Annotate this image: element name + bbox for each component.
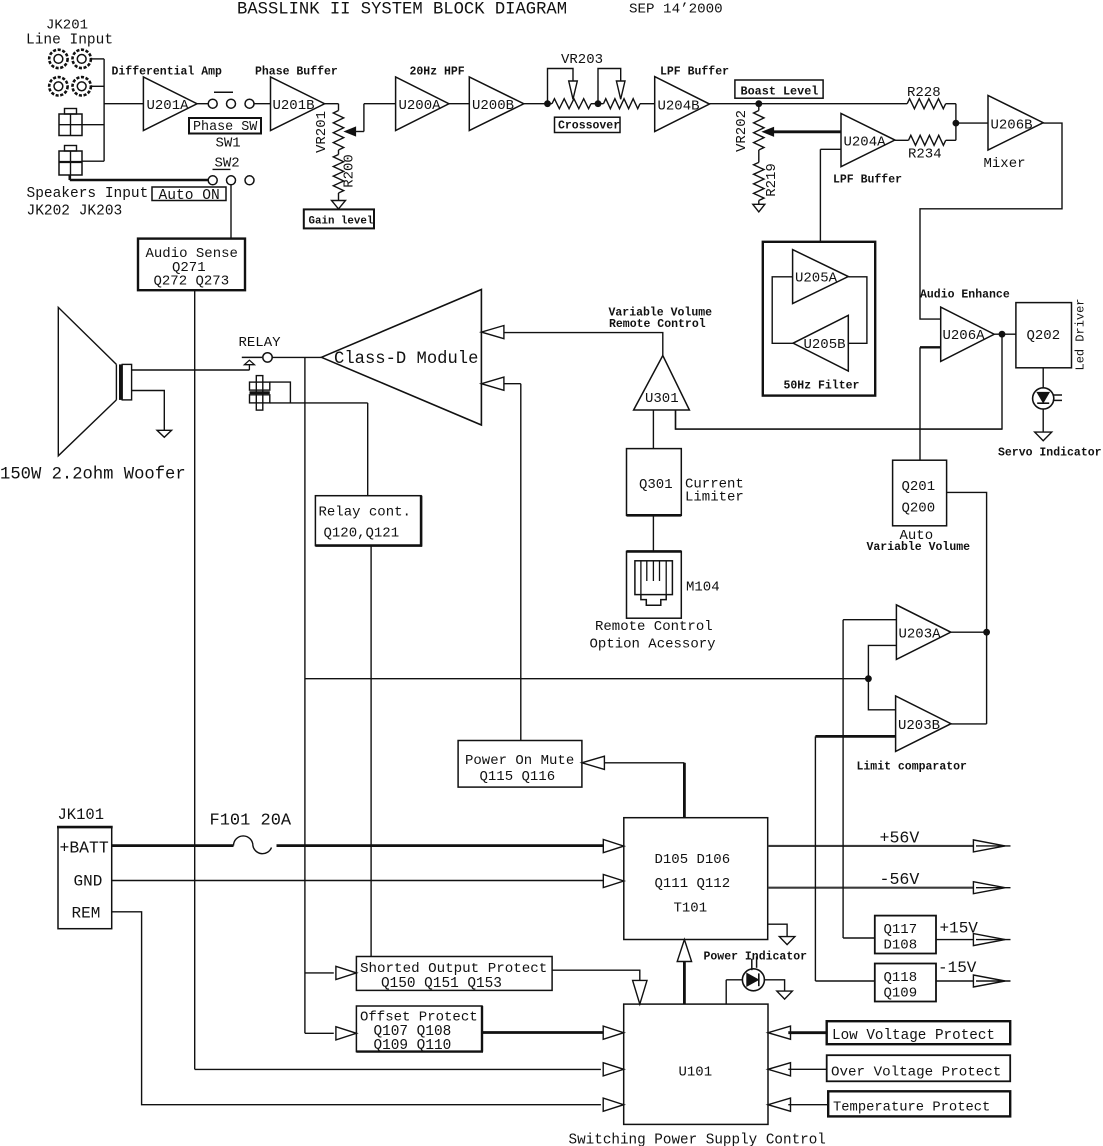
- svg-text:Shorted Output Protect: Shorted Output Protect: [360, 961, 547, 977]
- svg-text:Remote Control: Remote Control: [595, 619, 713, 635]
- svg-text:U206A: U206A: [943, 328, 986, 344]
- wire shorted output: [552, 970, 640, 980]
- VR203 bracket 1: [548, 69, 578, 104]
- wire speakers input to SW2: [70, 175, 208, 180]
- wire U206A to Q202: [994, 333, 1016, 335]
- box Over Voltage Protect: [827, 1055, 1011, 1081]
- svg-text:50Hz Filter: 50Hz Filter: [784, 380, 860, 393]
- wire U200B to VR203: [524, 103, 552, 105]
- svg-text:JK201: JK201: [46, 18, 88, 34]
- label LPF Buffer (U204A): [833, 174, 902, 187]
- wire relay to Class-D: [272, 356, 321, 358]
- wire +56V: [768, 845, 974, 847]
- wire power LED right: [764, 980, 784, 991]
- box U101: [624, 1004, 768, 1124]
- svg-text:+BATT: +BATT: [60, 839, 109, 858]
- label Auto Variable Volume: [867, 528, 971, 554]
- wire input bus vertical: [103, 59, 105, 161]
- connector JK101: [57, 806, 113, 929]
- label M104: [686, 580, 720, 596]
- Class-D input arrow 1: [481, 326, 504, 339]
- label Speakers Input: [27, 186, 149, 202]
- connector M104: [627, 551, 682, 618]
- label -56V: [880, 870, 920, 889]
- label Switching Power Supply Control: [569, 1133, 826, 1146]
- connector block 1: [59, 109, 82, 136]
- arrow shorted to U101: [633, 980, 647, 1004]
- Class-D input arrow 2: [481, 377, 504, 390]
- wire remote to Class-D: [504, 333, 663, 356]
- svg-text:U204A: U204A: [844, 135, 887, 151]
- wire R228 to node: [946, 104, 956, 123]
- svg-text:Remote Control: Remote Control: [609, 318, 706, 331]
- wire comparator junction line: [305, 678, 869, 680]
- arrow +BATT into D105: [603, 840, 624, 853]
- svg-text:U206B: U206B: [991, 118, 1033, 134]
- svg-text:U205B: U205B: [804, 337, 846, 353]
- wire U205A out to U205B: [848, 277, 867, 344]
- box Audio Sense: [138, 239, 245, 291]
- LED power indicator: [742, 956, 764, 990]
- svg-text:Auto ON: Auto ON: [159, 188, 220, 204]
- svg-text:GND: GND: [74, 873, 103, 891]
- svg-text:Boast Level: Boast Level: [741, 84, 819, 98]
- LED servo indicator: [1033, 388, 1062, 409]
- wire offset protect branch: [305, 1032, 334, 1034]
- wire Q117 feed: [843, 620, 875, 938]
- wire -56V: [768, 887, 974, 889]
- box Q202: [1016, 303, 1072, 368]
- arrow into Offset: [336, 1027, 357, 1040]
- arrow into Shorted: [336, 966, 357, 979]
- node VR202 top: [755, 100, 762, 107]
- ground VR202: [753, 201, 765, 212]
- wire U204A to R234: [895, 139, 909, 141]
- op-amp U201B: [271, 77, 325, 131]
- box Boast Level: [735, 80, 823, 98]
- resistor R228: [907, 99, 946, 109]
- wire U201A to SW1: [197, 103, 208, 105]
- label 50Hz Filter: [784, 380, 860, 393]
- switch SW2 label: [213, 156, 240, 172]
- svg-text:JK101: JK101: [58, 806, 105, 824]
- wire offset output: [482, 1031, 604, 1034]
- svg-text:Switching Power Supply Control: Switching Power Supply Control: [569, 1133, 826, 1146]
- op-amp U204A: [841, 113, 895, 166]
- label -15V: [938, 959, 977, 977]
- resistor R200: [333, 150, 357, 201]
- svg-text:Power Indicator: Power Indicator: [704, 951, 808, 964]
- box Q201 Q200: [893, 460, 947, 526]
- svg-text:JK202 JK203: JK202 JK203: [27, 204, 123, 220]
- connector block 2: [59, 146, 82, 176]
- svg-text:20Hz HPF: 20Hz HPF: [410, 66, 465, 79]
- wire U206B output: [920, 123, 1062, 319]
- svg-text:M104: M104: [686, 580, 720, 596]
- woofer speaker: [58, 307, 131, 455]
- potentiometer VR202: [734, 104, 764, 152]
- svg-text:VR203: VR203: [561, 52, 603, 68]
- node crossover 1: [544, 100, 551, 107]
- wire Class-D input 2: [504, 384, 521, 741]
- wire SW1 to U201B: [254, 103, 271, 105]
- switch SW2 contacts: [208, 176, 254, 185]
- op-amp U206B: [988, 95, 1043, 150]
- svg-text:REM: REM: [72, 905, 101, 923]
- svg-text:Option Acessory: Option Acessory: [590, 637, 716, 653]
- arrow REM into U101: [603, 1098, 624, 1111]
- wire Q202 to LED: [1042, 368, 1044, 388]
- svg-text:U203A: U203A: [899, 627, 942, 643]
- relay coil: [250, 376, 270, 411]
- arrow D105 to U101: [677, 940, 691, 1005]
- box D105 D106 Q111 Q112 T101: [624, 818, 768, 940]
- node U203A output: [983, 629, 990, 636]
- svg-text:Q150 Q151 Q153: Q150 Q151 Q153: [381, 976, 502, 992]
- svg-text:Q115 Q116: Q115 Q116: [480, 769, 556, 785]
- RCA jack 3: [49, 77, 67, 95]
- wire U204A lower input: [820, 149, 841, 242]
- svg-text:Speakers Input: Speakers Input: [27, 186, 149, 202]
- wire relay cont to shorted box: [370, 546, 372, 957]
- relay contact: [242, 353, 272, 370]
- label JK202 JK203: [27, 204, 123, 220]
- svg-text:Limiter: Limiter: [685, 490, 744, 506]
- svg-text:-56V: -56V: [880, 870, 920, 889]
- box Low Voltage Protect: [827, 1021, 1011, 1044]
- svg-text:U301: U301: [645, 391, 679, 407]
- svg-text:U205A: U205A: [795, 271, 838, 287]
- wire VR202 wiper to U204A: [773, 130, 842, 133]
- wire VR203 to U204B: [640, 103, 655, 105]
- label Remote Control Option Acessory: [590, 619, 716, 653]
- op-amp U203B: [896, 696, 951, 751]
- arrow into Gain level: [332, 201, 346, 209]
- wire U301 to Q301: [652, 410, 654, 449]
- date text: [629, 2, 723, 18]
- label LPF Buffer (U204B): [660, 66, 729, 79]
- arrow +56V: [973, 840, 1010, 852]
- arrow GND into D105: [603, 874, 624, 887]
- wire coil to relay cont box: [367, 403, 369, 496]
- label Servo Indicator: [998, 447, 1102, 460]
- box Gain level: [304, 209, 374, 228]
- wire GND to D105: [112, 880, 604, 882]
- svg-text:Q118: Q118: [884, 970, 918, 986]
- svg-text:U201B: U201B: [273, 98, 315, 114]
- wire Q118 feed: [815, 736, 874, 981]
- svg-text:Low Voltage Protect: Low Voltage Protect: [832, 1028, 995, 1044]
- arrow into Power On Mute: [582, 756, 605, 769]
- wire +BATT to fuse: [112, 844, 234, 847]
- svg-text:Differential Amp: Differential Amp: [112, 66, 223, 79]
- node crossover 2: [595, 100, 602, 107]
- svg-text:Power On Mute: Power On Mute: [465, 753, 574, 769]
- wire audio sense down: [195, 290, 601, 1069]
- svg-text:F101 20A: F101 20A: [210, 812, 292, 831]
- amplifier Class-D Module: [321, 290, 481, 426]
- wire relay coil top: [270, 382, 291, 403]
- svg-text:Q109 Q110: Q109 Q110: [374, 1038, 452, 1054]
- svg-text:Line Input: Line Input: [26, 33, 113, 49]
- svg-text:Over Voltage Protect: Over Voltage Protect: [831, 1065, 1001, 1081]
- label 150W 2.2ohm Woofer: [0, 466, 186, 485]
- svg-text:Temperature Protect: Temperature Protect: [833, 1101, 990, 1116]
- wire U203A top input: [843, 619, 896, 621]
- box Q117 D108: [875, 916, 936, 954]
- svg-text:U200B: U200B: [472, 98, 514, 114]
- wire U206A lower input: [920, 347, 941, 460]
- svg-text:U204B: U204B: [658, 99, 700, 115]
- wire Q201 to comparator: [947, 492, 987, 632]
- svg-text:Q117: Q117: [884, 922, 918, 938]
- wire Over Voltage: [788, 1068, 826, 1070]
- wire node to U206B: [956, 122, 988, 124]
- svg-text:VR202: VR202: [734, 110, 750, 152]
- arrow +15V: [973, 934, 1010, 946]
- label 20Hz HPF: [410, 66, 465, 79]
- svg-text:Q301: Q301: [639, 477, 673, 493]
- label Differential Amp: [112, 66, 223, 79]
- wire R234 to node: [946, 123, 956, 140]
- svg-text:D108: D108: [884, 938, 918, 954]
- svg-text:Q201: Q201: [902, 479, 936, 495]
- svg-text:Phase SW: Phase SW: [193, 120, 258, 135]
- label Current Limiter: [685, 477, 744, 506]
- box 50Hz Filter: [763, 242, 875, 396]
- wire U203B output: [951, 632, 987, 724]
- resistor R234: [909, 135, 946, 145]
- ground speaker: [157, 430, 172, 437]
- wire Temperature: [788, 1104, 828, 1106]
- svg-text:+15V: +15V: [940, 920, 979, 938]
- svg-text:+56V: +56V: [880, 829, 920, 848]
- RCA jack 2: [73, 50, 91, 68]
- label SW1: [216, 136, 241, 152]
- box Auto ON: [152, 187, 226, 204]
- op-amp U205A: [793, 250, 849, 304]
- wire U203B bottom input: [815, 735, 895, 738]
- label Audio Enhance: [920, 289, 1010, 302]
- box Temperature Protect: [828, 1091, 1010, 1116]
- VR202 wiper arrow: [763, 128, 774, 136]
- svg-text:Phase Buffer: Phase Buffer: [255, 66, 338, 79]
- wire bus to U201A: [104, 103, 143, 105]
- wire VR201 wiper to U200A: [364, 104, 396, 132]
- label F101 20A: [210, 812, 292, 831]
- node mixer input: [953, 120, 960, 127]
- wire speaker to ground: [132, 391, 165, 431]
- arrow offset into U101: [603, 1026, 624, 1039]
- wire relay coil bottom: [270, 402, 368, 404]
- box Q301: [627, 449, 682, 516]
- wire REM: [112, 912, 601, 1105]
- wire LED to ground: [1042, 409, 1044, 432]
- label RELAY: [239, 335, 282, 351]
- box Q118 Q109: [875, 964, 936, 1002]
- svg-text:U203B: U203B: [898, 718, 940, 734]
- svg-text:Variable Volume: Variable Volume: [867, 541, 971, 554]
- svg-text:R234: R234: [908, 147, 942, 163]
- wire crossover mid: [591, 103, 604, 105]
- svg-text:Q109: Q109: [884, 986, 918, 1002]
- arrow -56V: [973, 882, 1010, 894]
- VR201 wiper arrow: [345, 127, 364, 135]
- op-amp U301: [634, 356, 690, 411]
- svg-text:Q272 Q273: Q272 Q273: [154, 274, 230, 290]
- box Power On Mute: [458, 741, 582, 788]
- svg-text:R228: R228: [907, 85, 941, 101]
- svg-text:D105 D106: D105 D106: [655, 852, 731, 868]
- RCA jack 1: [49, 50, 67, 68]
- label +56V: [880, 829, 920, 848]
- svg-text:Q120,Q121: Q120,Q121: [324, 526, 400, 542]
- svg-text:SEP 14’2000: SEP 14’2000: [629, 2, 723, 18]
- svg-text:Q202: Q202: [1027, 328, 1061, 344]
- wire D105 ground stub: [768, 924, 787, 936]
- arrow audio sense into U101: [603, 1063, 624, 1076]
- svg-text:Mixer: Mixer: [984, 156, 1026, 172]
- wire +15V: [936, 939, 973, 941]
- RCA jack 4: [73, 77, 91, 95]
- op-amp U206A: [941, 307, 995, 361]
- arrow Over Voltage into U101: [768, 1063, 791, 1076]
- wire fuse to D105: [277, 844, 604, 847]
- label R228: [907, 85, 941, 101]
- title text: [237, 0, 567, 19]
- wire U201B to VR201: [325, 103, 339, 105]
- label VR203: [561, 52, 603, 68]
- svg-text:BASSLINK II SYSTEM BLOCK DIAGR: BASSLINK II SYSTEM BLOCK DIAGRAM: [237, 0, 567, 19]
- wire speaker to relay: [132, 369, 250, 371]
- svg-text:Servo Indicator: Servo Indicator: [998, 447, 1102, 460]
- resistor R219: [754, 150, 780, 201]
- box Offset Protect: [356, 1006, 483, 1054]
- svg-text:SW1: SW1: [216, 136, 241, 152]
- wire U204B output: [710, 103, 908, 105]
- label Led Driver: [1074, 298, 1088, 370]
- svg-text:Relay cont.: Relay cont.: [319, 505, 411, 521]
- label R234: [908, 147, 942, 163]
- label Power Indicator: [704, 951, 808, 964]
- ground servo LED: [1035, 432, 1052, 441]
- VR203 bracket 2: [598, 69, 625, 104]
- potentiometer VR201: [314, 104, 344, 153]
- ground D105: [779, 937, 795, 945]
- wire relay junction down: [304, 357, 306, 1033]
- potentiometer VR203 element 1: [552, 99, 591, 109]
- wire U203A bottom input: [868, 645, 896, 678]
- wire U203B top input: [868, 679, 895, 710]
- wire U203A output: [951, 631, 987, 633]
- op-amp U205B: [793, 315, 848, 371]
- op-amp U200A: [396, 77, 449, 131]
- wire -15V: [936, 980, 973, 982]
- arrow Temperature into U101: [768, 1098, 791, 1111]
- svg-text:RELAY: RELAY: [239, 335, 282, 351]
- svg-text:Q111 Q112: Q111 Q112: [655, 876, 731, 892]
- wire U200A to U200B: [449, 103, 469, 105]
- wire RCA top row to bus: [91, 58, 104, 60]
- connector JK201 label: [26, 18, 113, 49]
- label +15V: [940, 920, 979, 938]
- svg-text:LPF Buffer: LPF Buffer: [660, 66, 729, 79]
- svg-text:U101: U101: [679, 1065, 713, 1081]
- wire RCA bottom row to bus: [91, 85, 104, 87]
- svg-text:R200: R200: [342, 154, 358, 188]
- svg-text:U201A: U201A: [147, 98, 190, 114]
- wire block1 to bus: [82, 124, 104, 126]
- node comparator junction: [865, 675, 872, 682]
- svg-text:U200A: U200A: [399, 98, 442, 114]
- op-amp U203A: [896, 605, 950, 660]
- wire block2 to bus: [82, 160, 104, 162]
- op-amp U200B: [469, 77, 524, 131]
- svg-text:150W 2.2ohm Woofer: 150W 2.2ohm Woofer: [0, 466, 186, 485]
- arrow Low Voltage into U101: [768, 1026, 791, 1039]
- svg-text:Class-D Module: Class-D Module: [334, 350, 478, 369]
- arrow -15V: [973, 975, 1010, 987]
- wire U301 to comparator line: [676, 410, 1003, 429]
- wire shorted protect branch: [305, 972, 334, 974]
- svg-text:Gain level: Gain level: [309, 215, 374, 227]
- svg-text:Q200: Q200: [902, 501, 936, 517]
- svg-text:-15V: -15V: [938, 959, 977, 977]
- wire Low Voltage: [788, 1031, 826, 1034]
- fuse F101: [234, 836, 272, 854]
- svg-text:R219: R219: [764, 163, 780, 197]
- label Mixer: [984, 156, 1026, 172]
- box Crossover: [555, 117, 621, 133]
- wire mute line: [604, 763, 684, 818]
- svg-text:Crossover: Crossover: [558, 120, 620, 133]
- wire U206A output down: [676, 334, 1003, 429]
- op-amp U204B: [655, 77, 710, 132]
- svg-text:VR201: VR201: [314, 111, 330, 153]
- svg-text:T101: T101: [674, 901, 708, 917]
- box Relay cont.: [315, 496, 422, 547]
- ground power LED: [777, 991, 793, 999]
- wire U205A feedback: [772, 277, 793, 344]
- box Phase SW: [189, 118, 261, 135]
- wire Q301 to M104: [652, 515, 654, 551]
- op-amp U201A: [143, 77, 197, 131]
- box Shorted Output Protect: [356, 957, 552, 993]
- label Variable Volume Remote Control: [609, 307, 713, 332]
- switch SW1 contacts: [208, 92, 254, 108]
- potentiometer VR203 element 2: [604, 99, 641, 109]
- svg-text:Audio Enhance: Audio Enhance: [920, 289, 1010, 302]
- label Limit comparator: [857, 761, 968, 774]
- svg-text:Led Driver: Led Driver: [1074, 298, 1088, 370]
- wire power LED left: [726, 980, 742, 1004]
- svg-text:LPF Buffer: LPF Buffer: [833, 174, 902, 187]
- node U206A output: [999, 331, 1006, 338]
- label Phase Buffer: [255, 66, 338, 79]
- wire SW2 to audio sense: [230, 185, 232, 239]
- svg-text:Limit comparator: Limit comparator: [857, 761, 968, 774]
